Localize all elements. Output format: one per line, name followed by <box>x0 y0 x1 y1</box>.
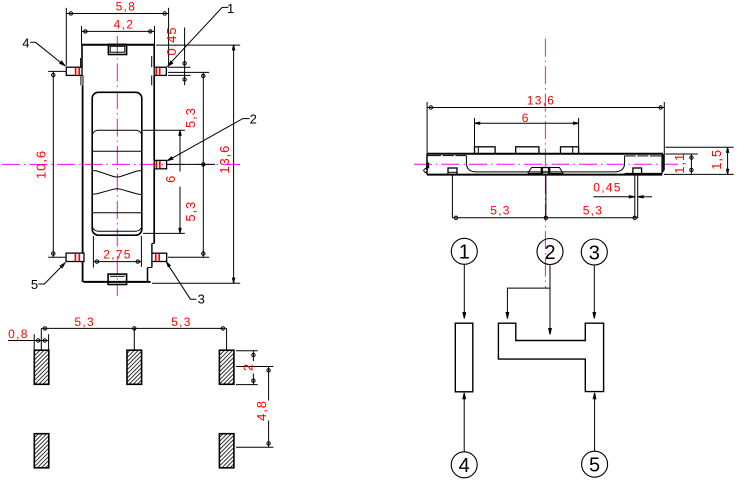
left contact rectangle <box>455 323 473 392</box>
10,6 <box>48 70 65 72</box>
0,45 <box>168 66 191 68</box>
svg-text:1: 1 <box>459 242 470 264</box>
terminal circle 1 <box>451 238 477 264</box>
0,45 dim <box>593 196 633 198</box>
svg-text:2: 2 <box>544 242 555 264</box>
svg-text:2,75: 2,75 <box>103 248 132 262</box>
5,3 / 5,3 right chain <box>168 71 209 73</box>
svg-text:6: 6 <box>522 111 530 125</box>
callout 3 <box>168 264 197 299</box>
seam <box>427 155 441 157</box>
body left edge <box>81 44 83 67</box>
pin 4 top-left <box>66 67 82 75</box>
right block <box>661 156 663 174</box>
5,3 5,3 chain <box>40 328 42 349</box>
pad 1 <box>34 350 49 384</box>
centerlines <box>414 163 678 165</box>
1,5 dim <box>665 146 733 148</box>
bowtie curves <box>92 170 142 177</box>
svg-text:0,8: 0,8 <box>8 327 29 341</box>
arrow from 5 <box>594 398 596 452</box>
svg-text:13,6: 13,6 <box>527 93 556 107</box>
4,8 dim <box>236 366 273 368</box>
svg-text:2: 2 <box>241 363 256 371</box>
svg-text:4,8: 4,8 <box>254 400 269 421</box>
svg-text:5,3: 5,3 <box>583 204 604 218</box>
svg-text:5,8: 5,8 <box>116 0 137 14</box>
svg-text:1,1: 1,1 <box>672 153 687 174</box>
pad 5 <box>219 434 234 468</box>
body top edge <box>82 44 155 46</box>
2,75 <box>92 236 94 268</box>
pin 2 mid-right <box>154 160 166 168</box>
svg-text:4: 4 <box>459 455 470 477</box>
terminal circle 3 <box>581 239 607 265</box>
svg-text:0,45: 0,45 <box>164 27 179 56</box>
pad 2 <box>127 350 142 384</box>
4,2 <box>81 26 83 44</box>
dome <box>528 168 563 174</box>
bottom tab <box>108 274 127 284</box>
svg-text:1: 1 <box>227 1 234 16</box>
callout 1 <box>168 7 229 65</box>
arrow from 4 <box>463 398 465 452</box>
5,3 5,3 bottom chain <box>452 217 638 219</box>
body <box>427 153 663 155</box>
svg-text:5: 5 <box>31 277 38 292</box>
dimensions of left view <box>48 8 240 284</box>
terminal circle 5 <box>582 451 608 477</box>
callout 5 <box>39 264 64 284</box>
inner lines <box>92 150 142 152</box>
inner rounded rect <box>92 130 142 231</box>
pin 1 top-right <box>154 67 166 75</box>
top tab <box>108 44 126 54</box>
0,8 dim <box>33 334 35 349</box>
13,6 <box>156 44 240 46</box>
elbow branch from 2 <box>507 288 550 313</box>
svg-text:5,3: 5,3 <box>171 315 192 329</box>
callout 4 <box>30 42 63 64</box>
terminal circle 2 <box>537 239 563 265</box>
pad 3 <box>219 350 234 384</box>
svg-text:5,3: 5,3 <box>74 315 95 329</box>
H-shaped contact <box>498 323 603 391</box>
svg-text:5,3: 5,3 <box>183 201 198 222</box>
svg-text:10,6: 10,6 <box>34 150 49 179</box>
arrow from 3 <box>593 265 595 313</box>
body bottom edge <box>84 281 151 283</box>
cavity <box>466 156 624 172</box>
capsule <box>92 92 142 235</box>
arrow from 1 <box>463 264 465 313</box>
1,1 dim <box>665 153 697 155</box>
pin extension lines down <box>451 175 453 218</box>
side pins <box>448 168 457 175</box>
svg-text:13,6: 13,6 <box>217 145 232 174</box>
leader callouts left view <box>30 7 250 299</box>
top bumps <box>475 147 496 154</box>
terminal circle 4 <box>451 452 477 478</box>
pad 4 <box>34 434 49 468</box>
2 dim <box>236 350 258 352</box>
6 <box>143 129 185 131</box>
svg-text:1,5: 1,5 <box>709 149 724 170</box>
callout 2 <box>169 119 250 161</box>
pin 5 bottom-left <box>66 253 84 261</box>
svg-text:6: 6 <box>163 175 178 183</box>
centerline vertical <box>116 36 118 296</box>
svg-text:3: 3 <box>198 292 205 307</box>
5,8 <box>65 8 67 66</box>
pin 3 bottom-right <box>152 253 167 261</box>
svg-text:4,2: 4,2 <box>114 18 135 32</box>
centerline horizontal <box>2 163 243 165</box>
arrow from 2 (direct) <box>549 264 551 330</box>
svg-text:2: 2 <box>250 112 257 127</box>
6 dim <box>474 118 476 146</box>
13,6 dim <box>426 102 428 153</box>
svg-text:3: 3 <box>589 242 600 264</box>
body right edge <box>153 44 155 67</box>
svg-text:5,3: 5,3 <box>183 107 198 128</box>
svg-text:4: 4 <box>22 35 29 50</box>
svg-text:5: 5 <box>589 455 600 477</box>
svg-text:5,3: 5,3 <box>490 204 511 218</box>
svg-text:0,45: 0,45 <box>593 181 622 195</box>
